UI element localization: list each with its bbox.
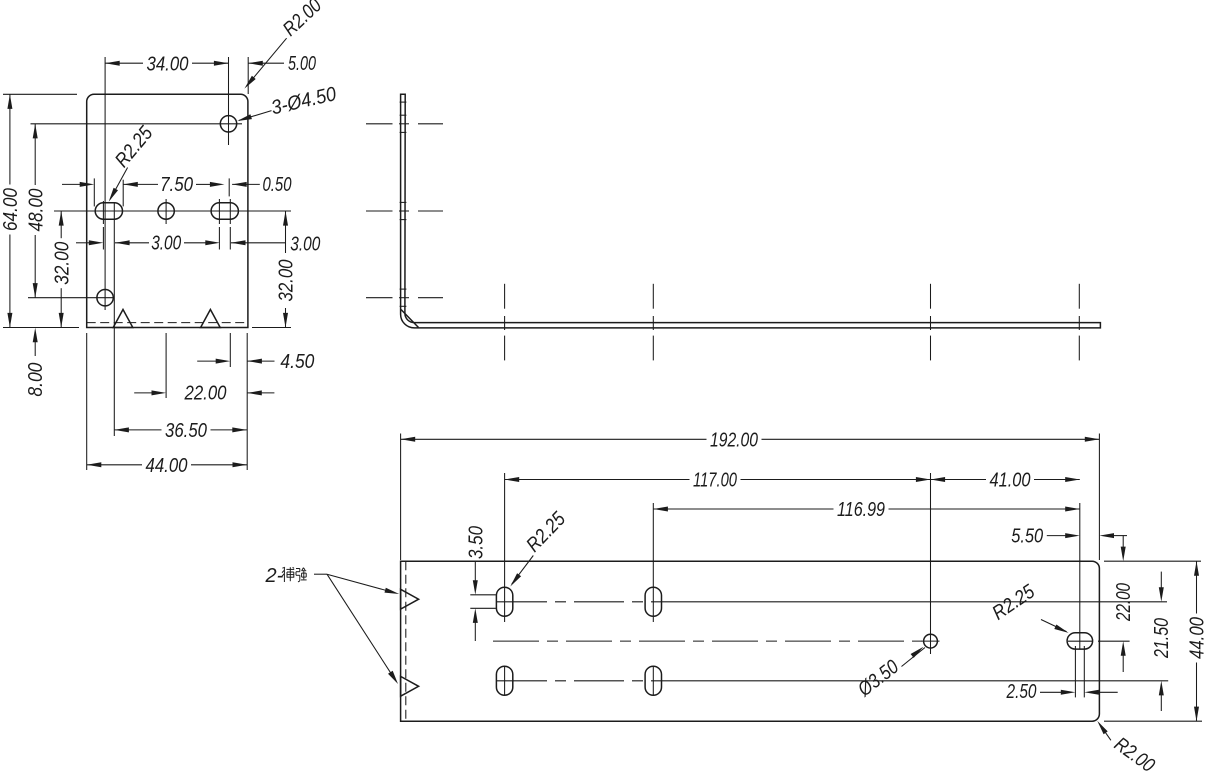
svg-text:44.00: 44.00: [1187, 617, 1207, 659]
svg-text:5.00: 5.00: [288, 53, 316, 75]
svg-text:116.99: 116.99: [837, 499, 885, 521]
centerline middle row: [493, 640, 922, 642]
leader R2.00 bottom: [1099, 724, 1111, 741]
hole lower-left dia 4.5: [97, 290, 113, 306]
svg-text:22.00: 22.00: [1113, 583, 1135, 622]
ext vertical left edge below: [86, 333, 88, 470]
ext bottom edge right: [1104, 720, 1202, 722]
ext vertical col2 up: [652, 503, 654, 622]
dim 7.50: [62, 183, 81, 185]
circle center cross bar: [922, 640, 940, 642]
ext vertical x103 slot arc: [102, 201, 104, 224]
bottom view plate outline: [401, 561, 1100, 721]
svg-text:21.50: 21.50: [1151, 618, 1173, 659]
side centerline row slots: [366, 210, 393, 212]
dim 3.00 left: [76, 242, 90, 244]
small hole dia 3.5: [924, 634, 938, 648]
bottom rib triangle 1: [401, 589, 419, 609]
side centerline col2: [652, 284, 654, 309]
side leg joint ticks: [400, 114, 407, 116]
dim 192.00: [401, 438, 707, 440]
dim 22.00 front: [134, 392, 152, 394]
upper slot col1: [496, 587, 512, 616]
dim 32.00: [60, 211, 62, 238]
dim 48.00: [34, 124, 36, 185]
side view rib diagonal: [401, 310, 419, 328]
side centerline row top hole: [366, 123, 393, 125]
side centerline col4: [1078, 284, 1080, 309]
upper slot col2: [645, 587, 661, 616]
svg-text:64.00: 64.00: [0, 188, 22, 231]
svg-text:41.00: 41.00: [990, 470, 1031, 492]
leader 3-dia4.50: [239, 111, 271, 121]
right slot R2.25: [211, 203, 238, 219]
leader R2.00 front: [247, 38, 287, 86]
leader to rib triangles: [314, 573, 327, 575]
svg-text:0.50: 0.50: [263, 174, 292, 196]
side view outer profile: [401, 94, 1101, 328]
right slot R2.25: [1067, 633, 1093, 649]
ext vertical right edge below: [246, 333, 248, 470]
3.50 ext ticks: [470, 594, 496, 596]
bottom view bend line (dashed): [405, 561, 407, 721]
ext vertical right slot center up: [1079, 503, 1081, 649]
bottom rib triangle 2: [401, 676, 419, 696]
svg-text:44.00: 44.00: [146, 455, 188, 477]
side tick near top: [400, 101, 407, 103]
svg-text:22.00: 22.00: [184, 383, 227, 405]
side centerline col3: [930, 284, 932, 309]
ext vertical 5.00 right: [247, 57, 249, 94]
front rib triangle 1: [113, 310, 133, 328]
ext vertical x228.5: [228, 57, 230, 145]
center dash lower slot col1: [504, 666, 506, 695]
dim 44.00: [87, 464, 142, 466]
middle hole dia 4.5: [158, 203, 174, 219]
dim 117.00: [505, 479, 690, 481]
dim 8.00: [33, 328, 38, 343]
svg-text:4.50: 4.50: [280, 351, 314, 373]
dim 4.50: [197, 360, 217, 362]
svg-text:3.00: 3.00: [290, 233, 320, 255]
svg-text:2-: 2-: [265, 565, 284, 587]
ext vertical x105 through holes: [104, 57, 106, 310]
ext vertical x114 slot arc: [113, 203, 115, 436]
leader R2.25 front: [110, 168, 127, 200]
front rib triangle 2: [201, 310, 221, 328]
svg-text:3.50: 3.50: [465, 526, 487, 559]
leader R2.25 bottom right: [1041, 620, 1067, 632]
dim 3.00 right: [205, 240, 220, 245]
ext vertical x230 slot arc: [229, 199, 231, 224]
dim 64.00: [9, 94, 11, 184]
front view bend line (dashed): [87, 322, 248, 324]
ext vertical col3 circle: [930, 473, 932, 654]
hole top dia 4.5: [220, 116, 236, 132]
kanji kyo (reinforce 2): [296, 568, 300, 570]
centerline upper slot row: [497, 601, 662, 603]
dim 0.50: [196, 183, 211, 185]
svg-text:32.00: 32.00: [275, 260, 297, 302]
svg-text:5.50: 5.50: [1011, 525, 1043, 547]
ext vertical left edge up: [400, 434, 402, 561]
leader R2.25 bottom col1: [512, 556, 534, 584]
dim 44.00: [1196, 561, 1198, 613]
centerline top hole row: [31, 123, 243, 125]
svg-text:34.00: 34.00: [147, 53, 189, 75]
center dash lower slot col2: [652, 666, 654, 695]
right slot arc center lines: [1074, 646, 1076, 697]
svg-text:48.00: 48.00: [25, 189, 47, 232]
ext vertical x219 slot arc: [218, 199, 220, 224]
side centerline col1: [504, 284, 506, 309]
svg-text:32.00: 32.00: [51, 242, 73, 285]
centerline slot row: [54, 210, 291, 212]
svg-text:7.50: 7.50: [160, 174, 193, 196]
side centerline row lower hole: [366, 297, 393, 299]
leader dia 3.50: [902, 648, 926, 667]
front view plate outline: [87, 94, 248, 327]
centerline lower hole row: [28, 297, 114, 299]
ext vertical middle hole below: [165, 199, 167, 224]
lower slot col1: [496, 666, 512, 695]
kanji ho (reinforce 1): [282, 567, 285, 568]
ext line top edge left: [3, 93, 77, 95]
ext line bottom edge left: [3, 327, 79, 329]
left slot R2.25: [95, 203, 122, 219]
svg-text:192.00: 192.00: [710, 430, 758, 452]
dim 36.50: [114, 429, 161, 431]
svg-text:117.00: 117.00: [693, 470, 737, 492]
ext vertical col1 up: [504, 473, 506, 622]
lower slot col2: [645, 666, 661, 695]
ext vertical right edge up: [1098, 434, 1100, 561]
ext line bottom edge right: [252, 327, 291, 329]
svg-text:36.50: 36.50: [165, 420, 207, 442]
dim 32.00 right: [283, 211, 288, 226]
dim 22.00 bottom: [1122, 535, 1124, 547]
dim 34.00: [105, 62, 143, 64]
svg-text:3.00: 3.00: [151, 233, 181, 255]
svg-text:2.50: 2.50: [1006, 681, 1037, 703]
svg-text:8.00: 8.00: [25, 363, 47, 397]
ext top edge right: [1104, 560, 1201, 562]
dim 21.50: [1160, 572, 1162, 589]
dim 5.00: [248, 61, 263, 66]
dim 116.99: [653, 508, 833, 510]
centerline lower slot row: [497, 680, 662, 682]
